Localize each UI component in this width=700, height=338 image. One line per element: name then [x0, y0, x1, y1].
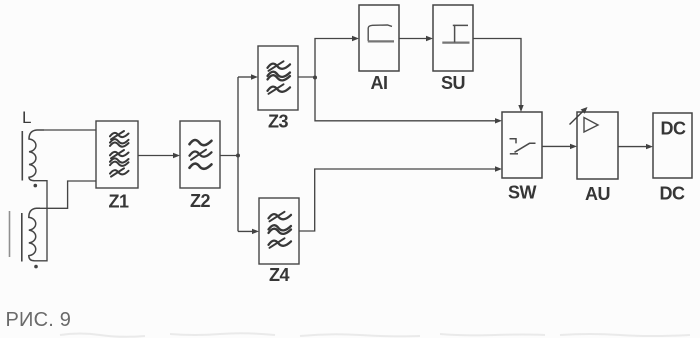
polarity dot secondary	[34, 265, 38, 269]
wire junction up to AI	[315, 39, 355, 78]
variable gain arrowhead	[581, 107, 588, 114]
junction dot after Z3	[313, 76, 317, 80]
block Z4	[259, 198, 299, 264]
arrowhead into Z3	[251, 74, 258, 79]
svg-text:Z2: Z2	[190, 191, 210, 211]
arrowhead into AU	[570, 144, 577, 149]
trunk vertical wire	[237, 77, 239, 231]
svg-text:AU: AU	[585, 184, 610, 204]
filter symbol Z3	[268, 61, 291, 94]
wire trunk to Z4	[238, 230, 255, 232]
amplifier triangle AU	[584, 118, 598, 133]
inductor L primary winding	[29, 130, 44, 181]
wire primary bottom to secondary bottom	[34, 181, 47, 261]
junction dot at trunk	[236, 154, 240, 158]
filter symbol Z2	[190, 140, 212, 169]
block AU	[577, 112, 618, 179]
block Z3	[258, 46, 298, 110]
svg-text:Z3: Z3	[268, 112, 288, 132]
svg-text:РИС. 9: РИС. 9	[6, 309, 72, 331]
filter symbol Z4	[269, 212, 292, 248]
arrowhead into Z2	[173, 153, 180, 158]
svg-text:DC: DC	[660, 184, 685, 204]
arrowhead into Z4	[252, 229, 259, 234]
arrowhead into AI	[352, 36, 359, 41]
wire Z4 up to SW lower input	[299, 169, 498, 231]
step function symbol SU	[442, 25, 469, 42]
wire Z2 to trunk junction	[220, 155, 238, 157]
arrowhead into SW top	[518, 105, 523, 112]
inductor L primary core bar	[21, 131, 23, 181]
svg-text:SW: SW	[508, 183, 537, 203]
wire Z1 to Z2	[138, 155, 176, 157]
polarity dot primary	[34, 184, 38, 188]
switch symbol SW	[510, 139, 536, 154]
arrowhead into SW lower input	[495, 166, 502, 171]
svg-text:DC: DC	[661, 119, 686, 139]
stray scan mark left edge	[9, 211, 11, 257]
wire AU to DC	[618, 146, 649, 148]
block AI	[359, 5, 399, 71]
saturation curve symbol AI	[368, 25, 394, 41]
wire SU to SW top	[473, 39, 521, 108]
arrowhead into DC	[646, 144, 653, 149]
wire SW to AU	[542, 145, 573, 147]
svg-text:Z4: Z4	[269, 265, 289, 285]
block SU	[433, 5, 473, 71]
svg-text:Z1: Z1	[108, 192, 128, 212]
wire AI to SU	[399, 38, 429, 40]
inductor L secondary core bar	[21, 213, 23, 262]
arrowhead into SW upper input	[495, 118, 502, 123]
wire trunk to Z3	[238, 76, 254, 78]
svg-text:AI: AI	[371, 73, 388, 93]
wire secondary top to Z1 lower input	[40, 181, 96, 208]
block Z2	[180, 121, 220, 188]
scan smudges bottom	[60, 333, 690, 337]
svg-text:L: L	[22, 108, 31, 127]
inductor L secondary winding	[29, 208, 40, 260]
wire junction down to SW upper input	[315, 77, 498, 121]
wire L top to Z1 upper input	[44, 129, 96, 131]
block SW	[502, 112, 542, 178]
block DC	[653, 113, 692, 178]
variable gain arrow AU	[570, 110, 585, 125]
arrowhead into SU	[426, 36, 433, 41]
svg-text:SU: SU	[441, 73, 465, 93]
filter symbol Z1	[110, 131, 129, 177]
wire Z3 to junction	[298, 76, 315, 78]
block Z1	[96, 121, 138, 188]
